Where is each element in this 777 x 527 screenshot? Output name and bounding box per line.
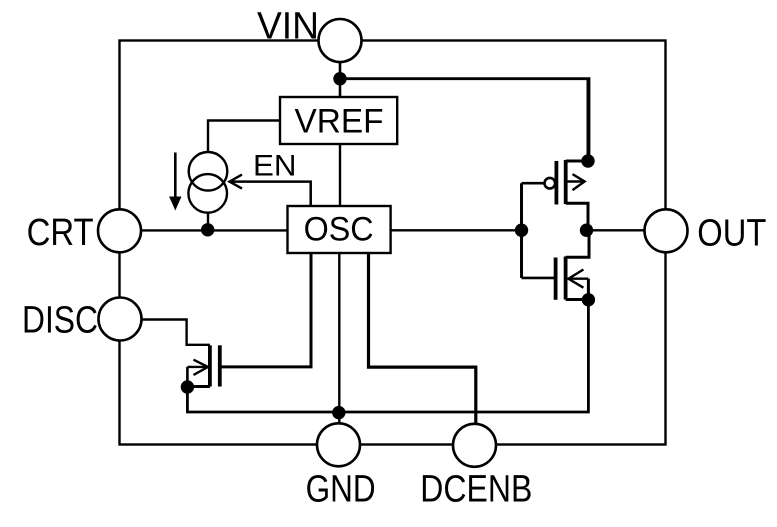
svg-text:OUT: OUT	[697, 213, 766, 255]
transistor M2 NMOS gate bar	[554, 258, 558, 300]
wire gate bus vertical	[520, 183, 523, 278]
wire OSC to GND pin	[338, 253, 340, 423]
wire EN to OSC	[230, 182, 311, 206]
svg-text:VREF: VREF	[295, 103, 384, 141]
block OSC	[288, 206, 391, 253]
junction gate node	[515, 224, 528, 237]
wire PMOS gate lead	[522, 182, 545, 185]
wire M3 body down	[186, 367, 189, 387]
wire M3 source lead	[187, 385, 210, 388]
IC boundary box	[120, 41, 666, 445]
wire OSC to gate node	[391, 229, 522, 231]
transistor M1 PMOS gate bar	[555, 161, 559, 205]
EN arrowhead	[230, 175, 243, 189]
wire DISC to M3 drain	[142, 320, 210, 345]
M2 body arrow	[568, 278, 588, 280]
wire VREF to OSC	[339, 144, 341, 206]
junction M2 source	[582, 293, 595, 306]
wire OSC to M3 gate	[220, 253, 311, 367]
svg-text:CRT: CRT	[27, 212, 94, 254]
transistor M3 NMOS channel bar	[208, 345, 212, 386]
M3 body arrow	[187, 366, 208, 368]
wire M2 source lead	[566, 300, 589, 305]
block VREF	[280, 97, 397, 144]
svg-text:DCENB: DCENB	[420, 469, 532, 511]
wire ground rail	[187, 300, 588, 412]
junction GND rail node	[332, 406, 345, 419]
pin VIN	[319, 19, 362, 62]
pin DISC	[99, 298, 142, 341]
wire CRT to OSC	[141, 229, 288, 231]
wire OUT node to OUT pin	[587, 229, 645, 231]
M1 body arrow	[566, 180, 584, 182]
svg-text:OSC: OSC	[304, 210, 374, 248]
svg-text:DISC: DISC	[22, 299, 98, 341]
wire VIN rail to PMOS source	[340, 79, 589, 161]
current direction arrow	[174, 153, 177, 200]
wire VREF to current source I1	[208, 121, 280, 153]
junction M3 source	[181, 380, 194, 393]
junction OUT node	[580, 224, 593, 237]
junction CRT node	[201, 223, 214, 236]
wire I1 bottom to CRT line	[207, 213, 209, 230]
PMOS gate bubble	[545, 178, 556, 189]
pin CRT	[98, 209, 141, 252]
svg-text:EN: EN	[253, 149, 297, 182]
junction VIN node	[333, 72, 346, 85]
junction M1 source	[581, 154, 594, 167]
transistor M3 NMOS gate bar	[218, 345, 222, 386]
transistor M1 PMOS channel bar	[564, 160, 568, 204]
pin OUT	[645, 209, 688, 252]
pin DCENB	[453, 424, 496, 467]
svg-text:VIN: VIN	[257, 6, 319, 48]
wire M1 drain lead	[566, 203, 588, 230]
wire OSC to DCENB pin	[369, 253, 476, 424]
transistor M2 NMOS channel bar	[564, 257, 568, 300]
wire M2 drain lead	[566, 230, 589, 257]
current source I1	[189, 152, 228, 191]
wire M2 body/source down	[587, 279, 590, 300]
svg-text:GND: GND	[306, 469, 376, 511]
pin GND	[317, 423, 360, 466]
wire VIN stub down to VREF	[339, 62, 342, 97]
transistor M2 NMOS gate lead	[522, 277, 556, 280]
wire M1 source lead	[566, 79, 588, 161]
